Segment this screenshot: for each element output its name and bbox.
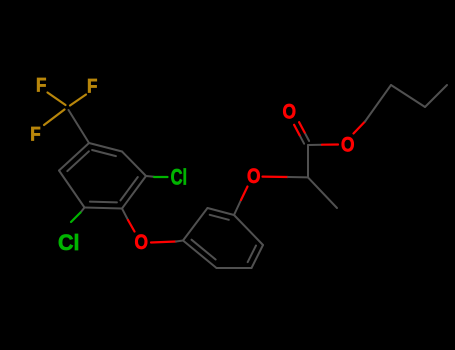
- bond C7-C4: [69, 110, 90, 143]
- bond C3-C2: [122, 152, 146, 177]
- svg-text:Cl: Cl: [58, 230, 80, 255]
- carbonyl C=O double bond: [300, 135, 305, 144]
- svg-text:Cl: Cl: [171, 165, 188, 190]
- bond CH-CH3 methyl: [308, 177, 337, 208]
- bond C2'-C3': [425, 85, 447, 107]
- svg-text:F: F: [36, 75, 46, 96]
- bond C4-C3 inner double: [92, 150, 116, 156]
- bond C1-C6 inner double: [90, 201, 117, 204]
- svg-text:O: O: [247, 165, 261, 188]
- bond C1'-C2': [391, 85, 425, 107]
- bond A6-A1: [183, 241, 217, 269]
- bond C4-C3: [89, 143, 122, 152]
- bond C5-C4 inner double: [67, 151, 89, 171]
- bond A4-A5: [252, 245, 264, 268]
- bond O_ester-C1': [354, 122, 366, 134]
- bond C7-F1: [48, 93, 66, 106]
- bond A2-A3: [208, 208, 235, 215]
- bond Ccarbonyl-O_ester: [308, 144, 322, 146]
- bond C7-F2: [70, 95, 86, 106]
- bond C7-F3: [44, 110, 65, 126]
- bond C2-C1: [122, 176, 146, 209]
- svg-text:O: O: [341, 134, 355, 157]
- bond C1-C6: [85, 208, 123, 209]
- bond CH-Ccarbonyl: [307, 145, 309, 177]
- bond A3-O_ether: [234, 200, 241, 215]
- bond C2-Cl_A: [146, 175, 154, 178]
- bond C1-O_link: [122, 209, 128, 221]
- bond A3-A4: [234, 215, 263, 245]
- svg-text:O: O: [283, 101, 297, 124]
- bond A2-A3 inner double: [210, 215, 229, 220]
- svg-text:F: F: [30, 124, 40, 145]
- bond O_link-A1: [151, 242, 176, 243]
- svg-text:O: O: [135, 231, 149, 254]
- bond A6-A1 inner double: [192, 240, 216, 260]
- bond C6-Cl_B: [81, 208, 85, 213]
- bond O_ether-CH: [263, 176, 289, 179]
- bond C2-C1 inner double: [121, 177, 138, 200]
- bond A1-A2: [183, 208, 208, 241]
- svg-text:F: F: [87, 76, 97, 97]
- bond A5-A6: [217, 267, 252, 269]
- bond A4-A5 inner double: [248, 246, 256, 263]
- bond C5-C4: [59, 143, 89, 171]
- bond C6-C5: [59, 171, 85, 208]
